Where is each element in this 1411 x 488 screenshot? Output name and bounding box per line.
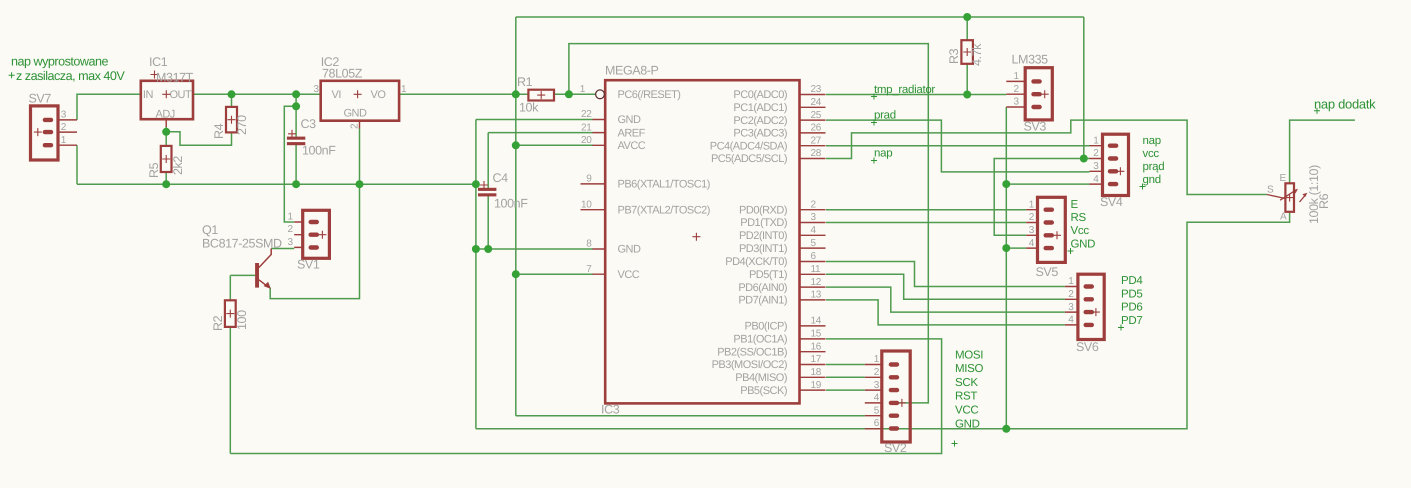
svg-text:100nF: 100nF <box>302 144 336 158</box>
wire IC2 GND down to bus <box>359 129 361 185</box>
wire GND bottom line <box>476 212 1290 429</box>
right pin stubs <box>800 95 826 391</box>
svg-text:10: 10 <box>581 199 592 210</box>
svg-text:PB4(MISO): PB4(MISO) <box>735 372 787 384</box>
svg-text:270: 270 <box>235 115 249 135</box>
svg-text:z zasilacza, max 40V: z zasilacza, max 40V <box>16 69 125 83</box>
svg-text:10k: 10k <box>519 101 539 115</box>
svg-text:100nF: 100nF <box>494 197 528 211</box>
svg-text:PB7(XTAL2/TOSC2): PB7(XTAL2/TOSC2) <box>618 204 710 216</box>
svg-text:1: 1 <box>288 212 294 223</box>
svg-text:PC5(ADC5/SCL): PC5(ADC5/SCL) <box>711 153 787 165</box>
resistor R3 4.7k <box>947 40 984 66</box>
wire AREF to C4 <box>488 132 593 134</box>
svg-text:PD5: PD5 <box>1121 289 1142 301</box>
wire R2 bottom to bottom bus <box>229 327 231 454</box>
wire C4 bottom lead <box>487 196 489 249</box>
svg-text:E: E <box>1280 173 1287 184</box>
svg-text:17: 17 <box>811 354 822 365</box>
wire VCC top rail <box>516 16 1084 18</box>
svg-text:PD6(AIN0): PD6(AIN0) <box>738 282 787 294</box>
svg-text:GND: GND <box>618 114 642 126</box>
svg-text:SV4: SV4 <box>1100 195 1123 209</box>
wire R1 right to reset pin <box>554 93 596 95</box>
svg-text:PD2(INT0): PD2(INT0) <box>739 230 787 242</box>
svg-text:2k2: 2k2 <box>171 156 185 175</box>
connector SV2 <box>865 351 910 455</box>
svg-text:6: 6 <box>874 418 880 429</box>
svg-text:4: 4 <box>1068 315 1074 326</box>
wire C4 top lead <box>487 133 489 189</box>
svg-text:C4: C4 <box>493 171 509 185</box>
wire PD5 to SV6 pin2 <box>826 274 1065 299</box>
svg-text:gnd: gnd <box>1143 174 1161 186</box>
node GND bus corner junction <box>472 180 480 188</box>
svg-text:GND: GND <box>344 108 368 120</box>
svg-text:tmp_radiator: tmp_radiator <box>874 84 935 96</box>
svg-text:1: 1 <box>1093 135 1099 146</box>
svg-text:28: 28 <box>811 148 822 159</box>
svg-text:19: 19 <box>811 380 822 391</box>
svg-text:IN: IN <box>143 89 154 101</box>
IC U1 MEGA8-P (IC3) <box>580 64 826 417</box>
svg-text:PD4(XCK/T0): PD4(XCK/T0) <box>725 256 787 268</box>
left pin names <box>618 89 710 281</box>
svg-text:R4: R4 <box>212 123 226 139</box>
wire VCC rail drop to SV4 pin2 <box>1084 17 1090 159</box>
wire PD4 to SV6 pin1 <box>826 262 1065 287</box>
svg-text:2: 2 <box>288 224 294 235</box>
node SV5 gnd junction <box>1002 244 1010 252</box>
svg-text:MEGA8-P: MEGA8-P <box>605 64 659 78</box>
svg-text:PD7(AIN1): PD7(AIN1) <box>738 295 787 307</box>
wire GND bus left section <box>77 183 476 185</box>
svg-text:3: 3 <box>1093 161 1099 172</box>
svg-text:1: 1 <box>1029 199 1035 210</box>
svg-text:SV6: SV6 <box>1076 340 1099 354</box>
svg-text:9: 9 <box>586 174 592 185</box>
svg-text:12: 12 <box>811 277 822 288</box>
svg-text:15: 15 <box>811 329 822 340</box>
resistor R2 100 <box>211 300 249 331</box>
svg-text:ADJ: ADJ <box>156 109 175 121</box>
svg-text:Vcc: Vcc <box>1071 225 1090 237</box>
svg-text:C3: C3 <box>301 117 317 131</box>
wire reset node to RST route <box>569 44 928 403</box>
connector SV6 <box>1065 274 1104 354</box>
node C3 top junction <box>292 90 300 98</box>
wire node C3 to SV1 pin1 <box>284 106 296 222</box>
svg-text:2: 2 <box>1029 212 1035 223</box>
wire Q1 base to R2 <box>230 274 255 276</box>
svg-text:nap: nap <box>1143 135 1161 147</box>
wire Q1 collector to SV1 pin3 <box>271 248 294 250</box>
svg-text:MOSI: MOSI <box>955 350 983 362</box>
wire R3 bottom lead <box>966 64 968 95</box>
node VCC R1 junction <box>512 90 520 98</box>
wire bus to Q1 emitter <box>270 184 359 298</box>
svg-text:PB2(SS/OC1B): PB2(SS/OC1B) <box>717 346 787 358</box>
svg-text:PB0(ICP): PB0(ICP) <box>745 321 787 333</box>
svg-text:PD4: PD4 <box>1121 275 1143 287</box>
svg-text:3: 3 <box>1029 225 1035 236</box>
svg-text:PC2(ADC2): PC2(ADC2) <box>733 115 787 127</box>
svg-text:1: 1 <box>61 135 67 146</box>
svg-text:R5: R5 <box>147 162 161 178</box>
node R3 top junction <box>963 13 971 21</box>
wire GND branch to SV5 pin4 <box>1006 247 1026 249</box>
wire GND vertical <box>475 120 477 429</box>
svg-text:RS: RS <box>1071 212 1087 224</box>
svg-text:100: 100 <box>235 310 249 330</box>
transistor Q1 BC817-25SMD <box>202 223 282 289</box>
svg-text:4: 4 <box>1029 238 1035 249</box>
regulator IC2 78L05Z <box>314 55 408 129</box>
regulator IC1 M317T <box>141 55 194 127</box>
svg-text:nap: nap <box>874 148 892 160</box>
svg-text:26: 26 <box>811 123 822 134</box>
svg-text:3: 3 <box>288 237 294 248</box>
svg-text:OUT: OUT <box>170 89 193 101</box>
wire PD1 to SV5 pin2 <box>826 222 1026 224</box>
svg-text:PD1(TXD): PD1(TXD) <box>740 217 787 229</box>
svg-text:AREF: AREF <box>618 127 646 139</box>
wire PD6 to SV6 pin3 <box>826 287 1065 312</box>
wire IC1 ADJ to R5 <box>165 127 167 146</box>
svg-text:E: E <box>1071 199 1079 211</box>
svg-text:nap dodatk: nap dodatk <box>1314 97 1376 112</box>
svg-text:PD3(INT1): PD3(INT1) <box>739 243 787 255</box>
right pin numbers <box>811 84 822 391</box>
svg-text:SV5: SV5 <box>1036 265 1059 279</box>
svg-text:PD5(T1): PD5(T1) <box>749 269 787 281</box>
connector SV5 <box>1026 197 1065 279</box>
node SV4 vcc junction <box>1080 155 1088 163</box>
svg-text:nap wyprostowane: nap wyprostowane <box>11 55 109 69</box>
wire PD7 to SV6 pin4 <box>826 300 1065 325</box>
svg-text:11: 11 <box>811 264 822 275</box>
svg-text:1: 1 <box>874 354 880 365</box>
svg-text:PC3(ADC3): PC3(ADC3) <box>733 128 787 140</box>
wire PD0 to SV5 pin1 <box>826 209 1026 211</box>
svg-text:2: 2 <box>1068 289 1074 300</box>
svg-text:PC4(ADC4/SDA): PC4(ADC4/SDA) <box>710 140 787 152</box>
svg-text:PC1(ADC1): PC1(ADC1) <box>733 102 787 114</box>
left pin numbers <box>580 84 593 275</box>
wire R4 top lead <box>231 94 233 107</box>
node C3 SV1 junction <box>292 102 300 110</box>
wire C3 bottom lead <box>295 145 297 185</box>
wire bottom bus to PB1 <box>230 339 941 454</box>
wire PB3 to SV2 pin1 <box>826 364 865 366</box>
wire AVCC <box>516 144 593 146</box>
svg-text:3: 3 <box>1068 302 1074 313</box>
svg-text:prąd: prąd <box>1143 161 1165 173</box>
svg-text:5: 5 <box>811 238 817 249</box>
svg-text:Q1: Q1 <box>202 223 218 237</box>
wire nap net pin28 to pot S <box>826 120 1267 194</box>
svg-text:PB1(OC1A): PB1(OC1A) <box>733 334 787 346</box>
svg-text:7: 7 <box>586 264 592 275</box>
svg-text:27: 27 <box>811 135 822 146</box>
connector SV7 <box>29 92 78 161</box>
resistor R5 2k2 <box>147 146 185 178</box>
svg-text:PD7: PD7 <box>1121 315 1142 327</box>
svg-text:2: 2 <box>1093 148 1099 159</box>
svg-text:GND: GND <box>955 419 980 431</box>
wire GND pin8 <box>476 248 593 250</box>
wire SV3 pin3 GND drop <box>1005 107 1007 429</box>
connector SV4 <box>1090 134 1129 209</box>
TEXT green labels <box>9 55 1377 447</box>
svg-text:S: S <box>1267 185 1274 196</box>
svg-text:18: 18 <box>811 367 822 378</box>
svg-text:GND: GND <box>618 244 642 256</box>
node AVCC junction <box>512 141 520 149</box>
svg-text:2: 2 <box>350 123 361 129</box>
node C3 bus junction <box>292 180 300 188</box>
svg-text:PD0(RXD): PD0(RXD) <box>739 204 787 216</box>
connector SV3 LM335 <box>1006 53 1052 134</box>
wire VCC to SV2 pin5 <box>516 415 865 417</box>
node ADJ junction <box>162 128 170 136</box>
wire C3 top lead <box>295 94 297 137</box>
origin cross <box>692 233 700 241</box>
svg-text:2: 2 <box>61 122 67 133</box>
svg-text:2: 2 <box>1014 84 1020 95</box>
svg-text:prad: prad <box>874 110 896 122</box>
svg-text:3: 3 <box>874 380 880 391</box>
node reset junction <box>565 90 573 98</box>
wire IC2 VO to R1 node <box>399 93 528 95</box>
svg-text:22: 22 <box>581 109 592 120</box>
wire GND pin22 <box>476 119 593 121</box>
svg-text:RST: RST <box>955 391 977 403</box>
svg-text:SV1: SV1 <box>297 258 320 272</box>
resistor R1 10k <box>517 75 554 115</box>
svg-text:VCC: VCC <box>618 269 640 281</box>
svg-text:vcc: vcc <box>1143 148 1160 160</box>
node C4 GND junction <box>484 245 492 253</box>
svg-text:SV7: SV7 <box>29 92 52 106</box>
wire R4 bottom to ADJ node <box>166 132 231 146</box>
wire GND branch to SV4 pin4 <box>1006 183 1089 185</box>
svg-text:LM335: LM335 <box>1012 53 1049 67</box>
wire SV7 pin1 down to GND bus <box>76 145 78 184</box>
svg-text:PC0(ADC0): PC0(ADC0) <box>733 89 787 101</box>
wire IC1 OUT to IC2 VI <box>193 93 321 95</box>
svg-text:PC6(/RESET): PC6(/RESET) <box>618 89 681 101</box>
svg-text:A: A <box>1280 212 1287 223</box>
svg-text:R2: R2 <box>211 315 225 331</box>
svg-text:4.7k: 4.7k <box>970 43 984 66</box>
wire tmp_radiator <box>826 94 1006 96</box>
svg-text:6: 6 <box>811 251 817 262</box>
svg-text:IC1: IC1 <box>149 55 168 69</box>
svg-text:BC817-25SMD: BC817-25SMD <box>202 237 282 251</box>
capacitor C4 100nF <box>478 171 528 211</box>
wire PB4 to SV2 pin2 <box>826 376 865 378</box>
wire pot E to nap dodatk <box>1290 120 1355 183</box>
svg-text:2: 2 <box>811 199 817 210</box>
wire VCC pin7 <box>516 273 593 275</box>
left pin stubs <box>581 120 606 275</box>
svg-text:VI: VI <box>332 89 342 101</box>
svg-text:20: 20 <box>581 135 592 146</box>
svg-text:SCK: SCK <box>955 377 978 389</box>
wire base node down to R2 top <box>229 275 231 300</box>
pin 1 reset circle <box>596 90 605 99</box>
node GND pin8 junction <box>472 245 480 253</box>
svg-text:MISO: MISO <box>955 363 984 375</box>
svg-text:GND: GND <box>1071 239 1096 251</box>
svg-text:R3: R3 <box>947 48 961 64</box>
node VCC pin7 junction <box>512 270 520 278</box>
svg-text:2: 2 <box>874 367 880 378</box>
svg-text:21: 21 <box>581 122 592 133</box>
svg-text:4: 4 <box>874 393 880 404</box>
wire prad net <box>826 120 1090 172</box>
resistor R4 270 <box>212 107 249 139</box>
node IC2 GND bus junction <box>356 180 364 188</box>
svg-text:PD6: PD6 <box>1121 302 1142 314</box>
svg-text:PB6(XTAL1/TOSC1): PB6(XTAL1/TOSC1) <box>618 179 710 191</box>
svg-text:16: 16 <box>811 341 822 352</box>
potentiometer R6 100k (1:10) <box>1267 165 1331 224</box>
svg-text:PB3(MOSI/OC2): PB3(MOSI/OC2) <box>712 359 787 371</box>
svg-text:R6: R6 <box>1317 193 1331 209</box>
node R4 top junction <box>228 90 236 98</box>
wire nap net pin27 to SV4 pin1 <box>826 145 1090 147</box>
wire VCC vertical rail <box>515 17 517 416</box>
wire VCC branch to SV5 pin3 <box>994 159 1084 236</box>
wire SV7 pin3 to IC1 IN <box>77 94 141 120</box>
svg-text:R1: R1 <box>517 75 533 89</box>
node R3 bottom junction <box>963 91 971 99</box>
svg-text:78L05Z: 78L05Z <box>322 67 363 81</box>
svg-text:14: 14 <box>811 316 822 327</box>
right pin names <box>710 89 787 397</box>
svg-text:1: 1 <box>1068 276 1074 287</box>
svg-text:M317T: M317T <box>156 71 194 85</box>
svg-text:3: 3 <box>1014 97 1020 108</box>
svg-text:8: 8 <box>586 239 592 250</box>
svg-text:PB5(SCK): PB5(SCK) <box>740 385 787 397</box>
svg-text:1: 1 <box>580 84 586 95</box>
capacitor C3 100nF <box>287 117 336 158</box>
svg-text:SV2: SV2 <box>884 441 907 455</box>
connector SV1 <box>288 210 330 271</box>
svg-text:1: 1 <box>401 84 407 95</box>
svg-text:3: 3 <box>314 84 320 95</box>
node R5 bus junction <box>162 180 170 188</box>
svg-text:4: 4 <box>1093 174 1099 185</box>
node GND line junction <box>1002 425 1010 433</box>
wire R3 top lead <box>966 17 968 40</box>
svg-text:SV3: SV3 <box>1024 120 1047 134</box>
svg-text:5: 5 <box>874 405 880 416</box>
svg-text:VO: VO <box>371 89 387 101</box>
svg-text:1: 1 <box>1014 71 1020 82</box>
svg-text:25: 25 <box>811 110 822 121</box>
svg-text:IC3: IC3 <box>601 403 620 417</box>
svg-text:AVCC: AVCC <box>618 140 646 152</box>
svg-text:3: 3 <box>61 110 67 121</box>
wire PB5 to SV2 pin3 <box>826 389 865 391</box>
svg-text:VCC: VCC <box>955 405 978 417</box>
svg-text:13: 13 <box>811 290 822 301</box>
node SV4 gnd junction <box>1002 180 1010 188</box>
svg-text:4: 4 <box>811 225 817 236</box>
wire R5 bottom to bus <box>165 172 167 184</box>
svg-text:24: 24 <box>811 97 822 108</box>
svg-text:3: 3 <box>811 212 817 223</box>
svg-text:23: 23 <box>811 84 822 95</box>
